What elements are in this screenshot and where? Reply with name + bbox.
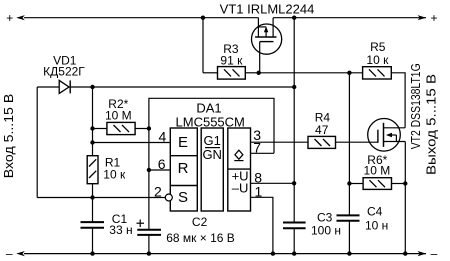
node dot R2 left [90, 126, 94, 130]
pin 7 wire [251, 152, 275, 154]
IC label -U [232, 180, 249, 195]
IC cell letter S [178, 189, 188, 206]
svg-text:1: 1 [255, 184, 263, 200]
node dot R2 right [147, 126, 151, 130]
pin 3 wire [251, 141, 309, 143]
svg-text:47: 47 [315, 123, 329, 137]
IC output diamond symbol [234, 150, 243, 160]
node dot R6 right [403, 181, 407, 185]
resistor R1 [87, 156, 98, 184]
svg-text:E: E [178, 134, 188, 151]
wire C3 column x294.2 [293, 18, 295, 223]
op-amp U1 IC DA1 LMC555CM body [170, 128, 250, 211]
node dot R5 left feedback column [347, 71, 351, 75]
wire left column x92.5 to bottom rail [92, 228, 94, 254]
node dot C1 bottom [90, 251, 94, 255]
svg-text:10 к: 10 к [366, 53, 389, 67]
resistor R5 label [366, 40, 389, 67]
IC DA1 label [176, 101, 245, 130]
wire top rail left segment [24, 17, 258, 19]
node dot pin4 wire left [90, 140, 94, 144]
svg-text:C4: C4 [367, 205, 383, 219]
resistor R3 [203, 18, 259, 79]
svg-text:R5: R5 [370, 40, 386, 54]
plus terminal output [430, 11, 437, 25]
wire left column x92.5 upper [92, 87, 94, 156]
svg-text:S: S [178, 189, 188, 206]
pin 1 wire [251, 197, 273, 253]
resistor R3 label [220, 42, 243, 68]
resistor R2 label [105, 97, 132, 123]
IC function label G1 GN [202, 133, 222, 162]
pin 2 number [154, 184, 162, 200]
minus terminal input [6, 247, 13, 261]
node dot R6 left [347, 181, 351, 185]
pin 2 inversion circle [165, 194, 172, 201]
wire top rail right segment [273, 17, 426, 19]
svg-text:+: + [430, 11, 437, 25]
wire VD1 anode to trigger line [36, 87, 38, 198]
node dot pin6 [147, 168, 151, 172]
label input voltage [1, 94, 16, 179]
node dot R3 top rail [201, 16, 205, 20]
pin 8 wire [251, 182, 295, 184]
svg-text:4: 4 [159, 129, 167, 145]
node dot VD1 cathode [90, 85, 94, 89]
IC cell letter R [178, 160, 189, 177]
svg-text:3: 3 [253, 127, 261, 143]
pin 6 wire [149, 169, 170, 171]
svg-text:VT1 IRLML2244: VT1 IRLML2244 [220, 2, 315, 17]
pin 8 number [254, 169, 262, 185]
pin 2 wire [37, 197, 165, 199]
resistor R4 label [315, 111, 331, 138]
svg-text:VT2 DSS138LT1G: VT2 DSS138LT1G [408, 63, 423, 149]
input arrow left bottom [16, 251, 25, 256]
node dot at C3 column top wire [292, 85, 296, 89]
capacitor C2 [137, 230, 161, 254]
svg-text:91 к: 91 к [220, 54, 243, 68]
diode VD1 label [43, 54, 85, 79]
svg-text:10 к: 10 к [103, 168, 126, 182]
wire R5 right to VT2 drain [391, 73, 405, 128]
svg-text:Выход 5...15 В: Выход 5...15 В [423, 74, 438, 175]
svg-text:G1: G1 [204, 133, 221, 148]
IC cell letter E [178, 134, 188, 151]
node dot pin8 at C3 column [292, 181, 296, 185]
wire left column x92.5 lower [92, 184, 94, 222]
node dot C3 column top rail [292, 16, 296, 20]
svg-text:–: – [6, 247, 13, 261]
svg-text:КД522Г: КД522Г [43, 65, 85, 79]
svg-text:33 н: 33 н [109, 223, 132, 237]
wire long node VD1 cathode to C3 column [93, 86, 295, 88]
svg-text:Вход 5...15 В: Вход 5...15 В [1, 94, 16, 179]
label output voltage [423, 74, 438, 175]
capacitor C4 [337, 215, 360, 253]
resistor R6 [349, 178, 405, 190]
capacitor C4 label [365, 205, 388, 233]
wire feedback column x349.4 [348, 73, 350, 216]
pin 4 number [159, 129, 167, 145]
node dot pin1 bottom rail [271, 251, 275, 255]
plus terminal input [6, 11, 13, 25]
svg-text:100 н: 100 н [311, 224, 341, 238]
transistor VT1 [252, 18, 282, 73]
resistor R4 [308, 136, 336, 148]
transistor VT2 [368, 119, 406, 152]
node dot VT2 source bottom rail [403, 251, 407, 255]
node dot C4 bottom [347, 251, 351, 255]
svg-text:C2: C2 [192, 215, 208, 229]
input arrow left top [16, 15, 25, 20]
wire R4 to VT2 gate [336, 141, 378, 143]
svg-text:LMC555CM: LMC555CM [176, 114, 245, 129]
pin 1 number [255, 184, 263, 200]
svg-text:C3: C3 [317, 211, 333, 225]
minus terminal output [431, 247, 438, 261]
wire VT2 source down [404, 142, 406, 254]
output arrow right bottom [418, 251, 427, 256]
svg-text:10 М: 10 М [105, 109, 132, 123]
output arrow right top [418, 15, 427, 20]
node dot R1 bottom trigger wire [90, 195, 94, 199]
svg-text:68 мк × 16 В: 68 мк × 16 В [166, 231, 235, 245]
resistor R5 [363, 67, 392, 79]
pin 3 number [253, 127, 261, 143]
capacitor C2 polarity plus [137, 220, 145, 228]
capacitor C3 [283, 223, 306, 254]
pin 6 number [158, 156, 166, 172]
svg-text:+: + [6, 11, 13, 25]
capacitor C3 label [311, 211, 341, 238]
wire gate node to R5 [259, 72, 363, 74]
svg-text:6: 6 [158, 156, 166, 172]
resistor R6 label [364, 153, 391, 178]
svg-text:10 н: 10 н [365, 219, 388, 233]
wire bottom rail [24, 253, 426, 255]
pin 4 wire [93, 142, 171, 144]
svg-text:–: – [431, 247, 438, 261]
IC label +U [232, 169, 249, 184]
resistor R1 label [103, 156, 126, 182]
transistor VT1 label [220, 2, 315, 17]
wire R2-pin7 loop over IC [149, 98, 274, 153]
svg-text:–U: –U [232, 180, 249, 195]
diode VD1 [37, 80, 92, 93]
wire C2 column x148.9 [148, 129, 150, 230]
node dot C3 bottom [292, 251, 296, 255]
IC GN overline [205, 147, 220, 149]
svg-text:GN: GN [202, 147, 222, 162]
svg-text:DA1: DA1 [196, 101, 221, 116]
transistor VT2 label rotated [408, 63, 423, 149]
pin 7 number [253, 140, 261, 156]
capacitor C1 label [109, 212, 132, 237]
svg-text:2: 2 [154, 184, 162, 200]
svg-text:10 М: 10 М [364, 164, 391, 178]
capacitor C2 label [166, 215, 235, 245]
node dot R3 right gate node [257, 71, 261, 75]
capacitor C1 [81, 222, 105, 228]
node dot C2 bottom [147, 251, 151, 255]
resistor R2 [93, 122, 149, 134]
svg-text:R: R [178, 160, 189, 177]
